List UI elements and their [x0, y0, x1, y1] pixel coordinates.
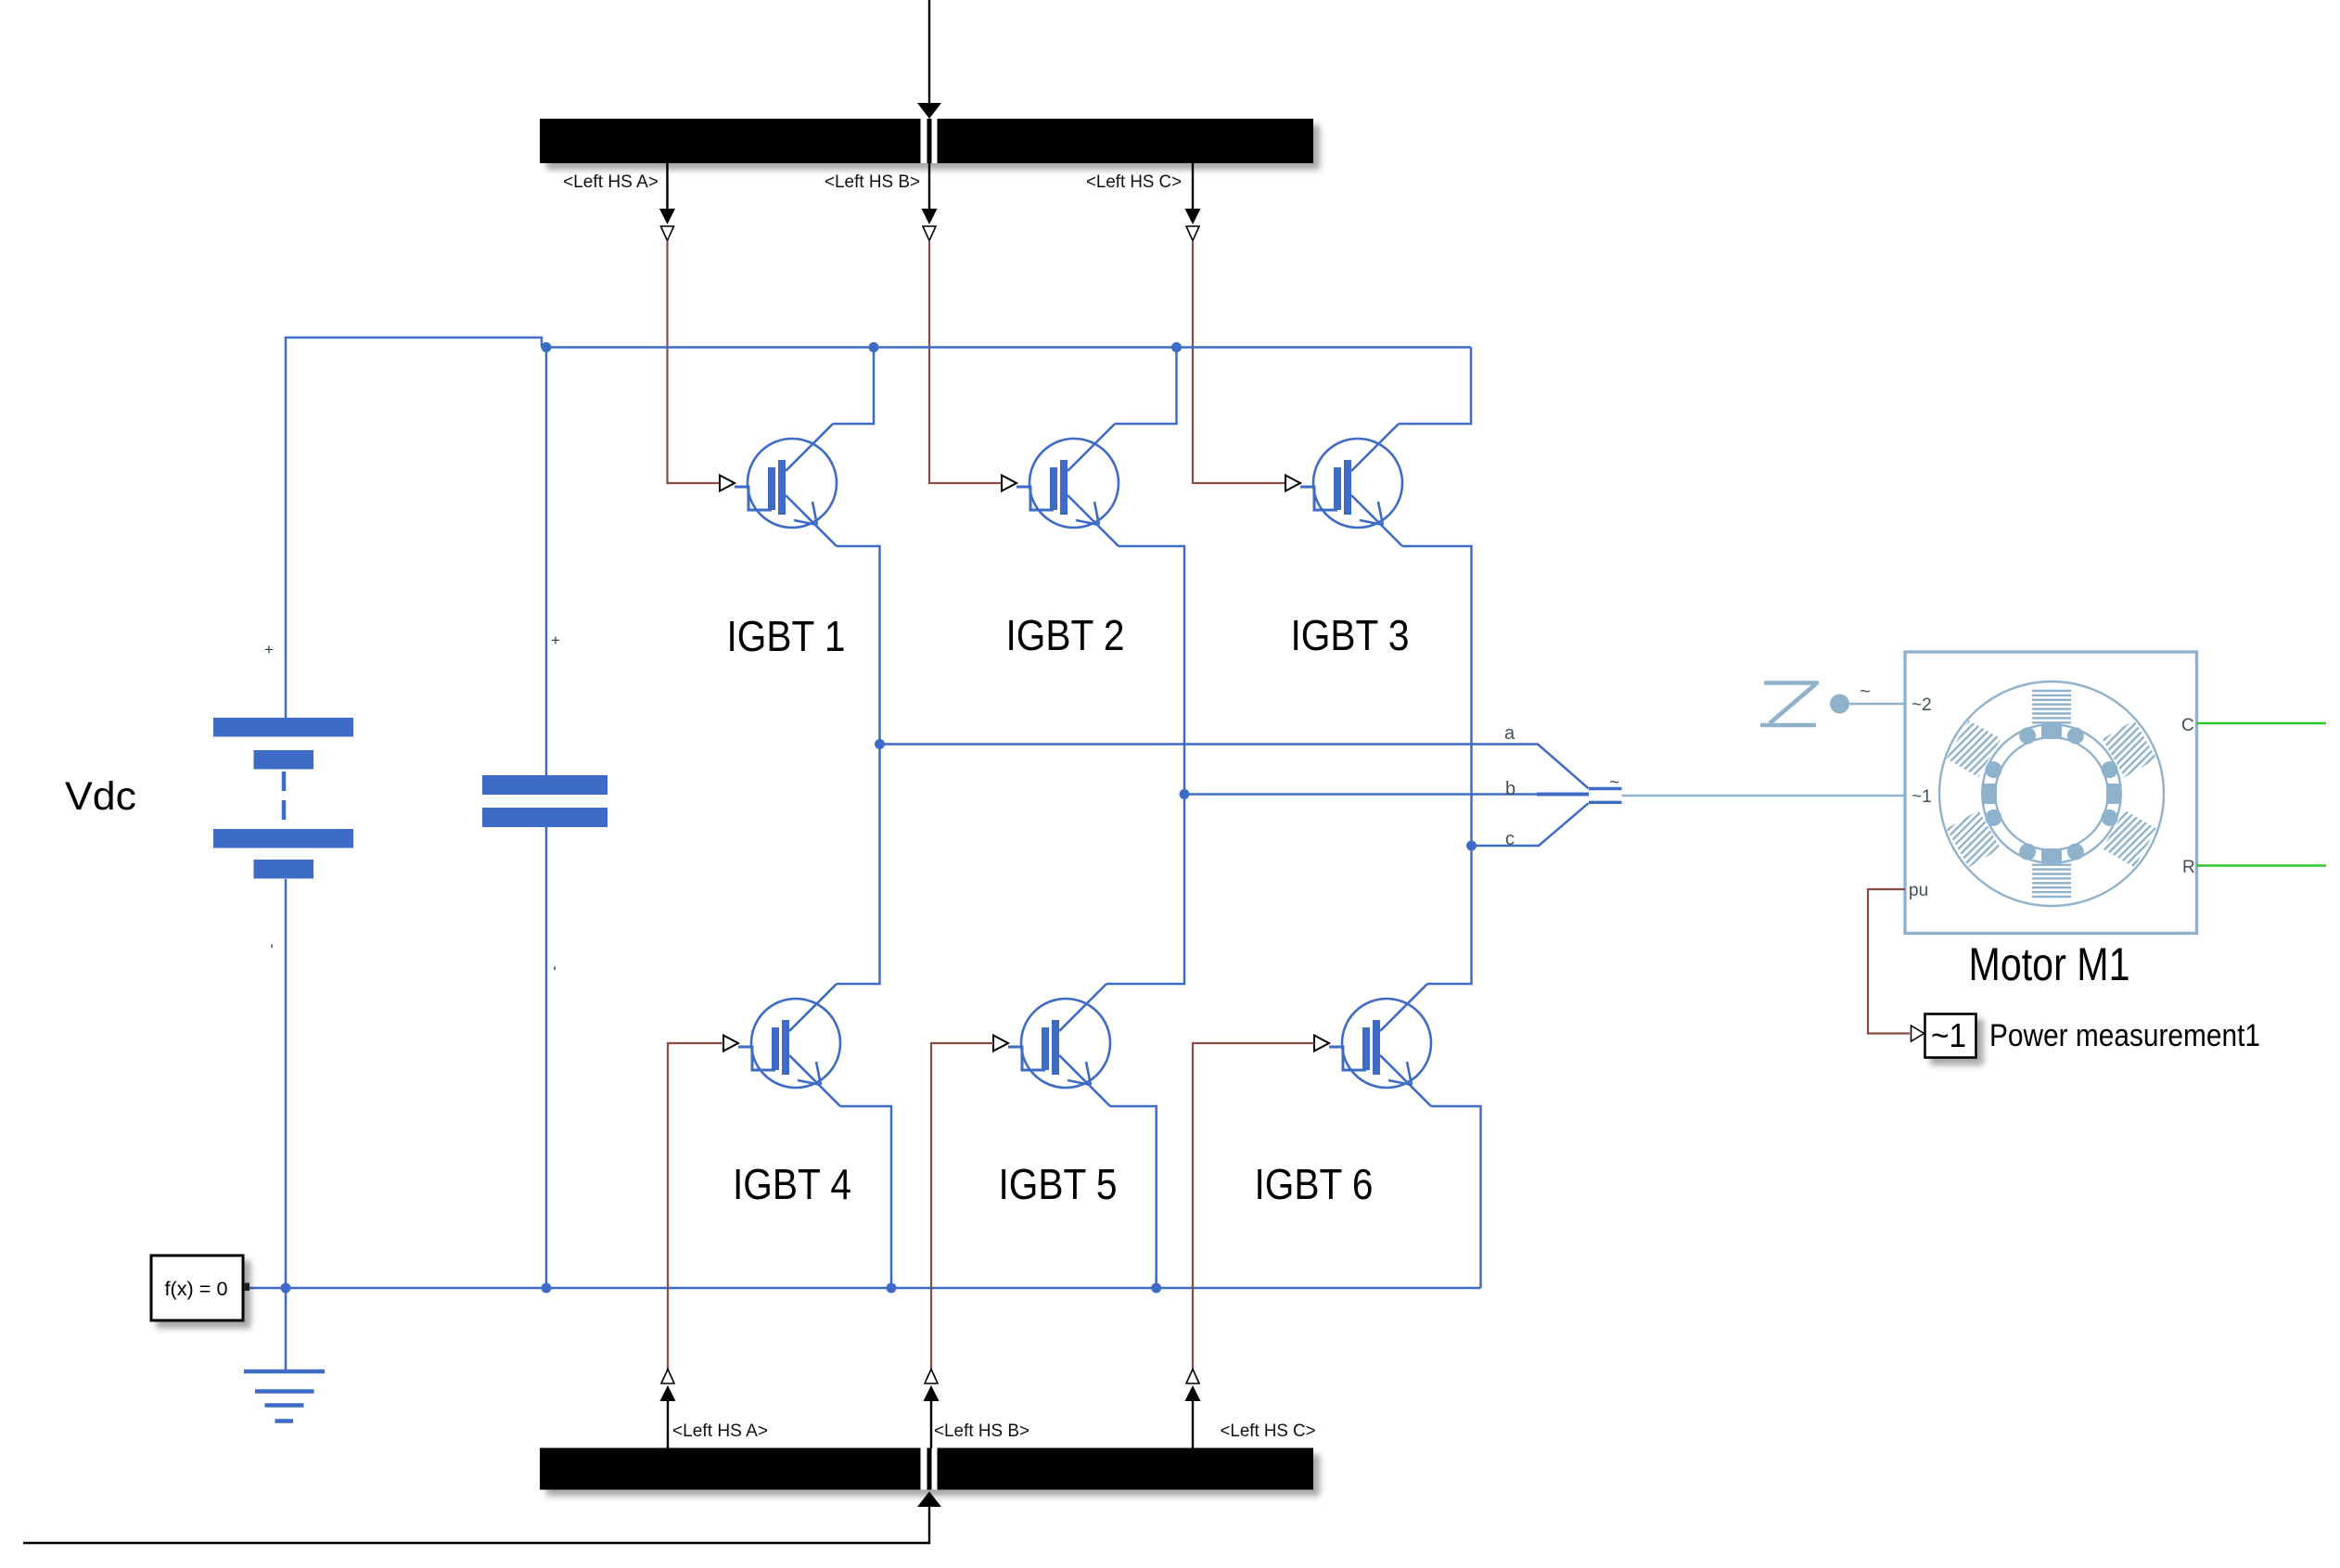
wire pu to power measurement: [1868, 889, 1910, 1034]
svg-text:Motor M1: Motor M1: [1969, 938, 2130, 990]
tap C open arrowhead: [1186, 226, 1199, 241]
svg-text:b: b: [1505, 779, 1515, 799]
svg-text:<Left HS B>: <Left HS B>: [825, 172, 920, 192]
wire IGBT1 emitter to node a: [837, 546, 880, 745]
three-phase merge stem: [1537, 793, 1589, 797]
wire green R output: [2197, 864, 2327, 867]
motor M1 block body: [1905, 652, 2197, 934]
svg-text:': ': [270, 941, 273, 959]
battery Vdc plate 4: [254, 860, 314, 879]
svg-text:<Left HS C>: <Left HS C>: [1086, 172, 1182, 192]
tap A filled arrowhead: [659, 209, 675, 224]
svg-text:C: C: [2181, 716, 2194, 735]
wire IGBT4 collector to node a: [837, 745, 880, 985]
svg-text:<Left HS C>: <Left HS C>: [1221, 1421, 1316, 1441]
battery Vdc dashed link: [282, 771, 287, 827]
tap B filled arrowhead: [922, 209, 938, 224]
transistor IGBT 2: [1002, 424, 1119, 546]
svg-text:a: a: [1504, 723, 1515, 744]
svg-text:IGBT 6: IGBT 6: [1255, 1160, 1374, 1208]
wire gate IGBT3: [1193, 241, 1285, 483]
junction bottom rail / capacitor: [542, 1283, 552, 1294]
motor stator winding hatch SE: [2103, 810, 2157, 868]
wire phase c: [1472, 803, 1589, 846]
svg-text:pu: pu: [1909, 881, 1928, 900]
wire gate IGBT2: [929, 241, 1002, 483]
transistor IGBT 6: [1314, 984, 1431, 1106]
battery Vdc plate 1: [213, 718, 353, 737]
wire IGBT2 emitter to node b: [1119, 546, 1184, 795]
arrowhead input into top bus: [917, 103, 941, 119]
wire battery negative leg: [285, 879, 288, 1371]
motor bearing block top: [2041, 724, 2062, 739]
wire IGBT5 collector to node b: [1106, 795, 1184, 985]
tap B wire: [928, 163, 930, 210]
motor stator winding hatch bottom: [2032, 865, 2071, 897]
svg-text:IGBT 4: IGBT 4: [733, 1160, 851, 1208]
wire green C output: [2197, 722, 2327, 725]
wire input signal top: [928, 0, 930, 104]
tap A wire: [666, 163, 668, 210]
tap B open arrowhead bottom: [925, 1370, 938, 1384]
wire IGBT2 collector to top rail: [1115, 348, 1177, 425]
Z reference symbol: [1764, 681, 1819, 685]
svg-text:<Left HS A>: <Left HS A>: [563, 172, 659, 192]
tap A filled arrowhead bottom: [660, 1385, 676, 1401]
motor bearing ring outer: [1982, 724, 2121, 863]
tap C wire bottom: [1192, 1400, 1194, 1448]
bus crossing stripe left: [921, 119, 927, 163]
svg-text:IGBT 1: IGBT 1: [727, 612, 846, 660]
bus crossing stripe left bottom: [921, 1448, 927, 1490]
port square f(x) block: [244, 1283, 249, 1292]
tap A wire bottom: [667, 1400, 669, 1448]
junction top rail / IGBT1 collector: [869, 342, 879, 352]
wire IGBT3 collector to top rail end: [1399, 348, 1471, 425]
tap A open arrowhead bottom: [661, 1370, 674, 1384]
wire battery positive to top rail: [286, 338, 542, 718]
transistor IGBT 4: [723, 984, 840, 1106]
wire gate IGBT6: [1193, 1043, 1314, 1369]
wire IGBT5 emitter to bottom rail: [1110, 1106, 1157, 1288]
bus crossing stripe right: [932, 119, 938, 163]
motor bearing block right: [2106, 784, 2121, 804]
wire three-phase line to motor: [1622, 795, 1906, 797]
tap C open arrowhead bottom: [1186, 1370, 1199, 1384]
junction bottom rail / battery: [281, 1283, 291, 1294]
tap A open arrowhead: [661, 226, 674, 241]
svg-text:<Left HS B>: <Left HS B>: [934, 1421, 1029, 1441]
block f(x)=0 solver: [151, 1256, 243, 1320]
three-phase merge bar lower: [1589, 801, 1622, 804]
wire capacitor bottom leg: [545, 827, 548, 1288]
svg-text:+: +: [551, 631, 560, 649]
junction bottom rail / IGBT5 emitter: [1151, 1283, 1161, 1294]
mux bus bar bottom: [540, 1448, 1313, 1490]
svg-text:IGBT 3: IGBT 3: [1291, 611, 1410, 659]
tap B filled arrowhead bottom: [924, 1385, 940, 1401]
motor stator outer circle: [1939, 682, 2164, 906]
svg-text:Power measurement1: Power measurement1: [1989, 1018, 2260, 1053]
svg-text:IGBT 2: IGBT 2: [1006, 611, 1125, 659]
battery Vdc plate 2: [254, 750, 314, 770]
junction node a: [875, 739, 885, 749]
transistor IGBT 3: [1285, 424, 1402, 546]
wire IGBT6 collector to node c: [1427, 846, 1472, 984]
wire gate IGBT1: [668, 241, 721, 483]
svg-text:+: +: [264, 641, 274, 658]
tap C wire: [1192, 163, 1194, 210]
bus crossing stripe right bottom: [932, 1448, 938, 1490]
motor rotor inner circle: [1995, 737, 2107, 849]
transistor IGBT 1: [720, 424, 837, 546]
motor stator winding hatch NW: [1947, 720, 2001, 778]
wire IGBT3 emitter to node c: [1402, 546, 1472, 846]
svg-text:R: R: [2182, 858, 2195, 877]
three-phase merge bar upper: [1589, 787, 1622, 790]
wire gate IGBT5: [931, 1043, 993, 1369]
motor stator winding hatch SW: [1947, 810, 2001, 868]
wire phase b: [1184, 793, 1589, 796]
svg-text:c: c: [1505, 829, 1515, 849]
svg-text:Vdc: Vdc: [65, 774, 136, 819]
motor stator winding hatch top: [2032, 691, 2071, 722]
svg-text:<Left HS A>: <Left HS A>: [672, 1421, 768, 1441]
transistor IGBT 5: [993, 984, 1110, 1106]
block ~1 power measurement: [1925, 1014, 1976, 1058]
capacitor plate bottom: [482, 808, 607, 827]
wire bottom DC rail: [248, 1287, 1481, 1290]
svg-text:~1: ~1: [1912, 787, 1932, 807]
wire gate IGBT4: [668, 1043, 723, 1369]
arrowhead output into bottom bus: [917, 1492, 941, 1508]
junction bottom rail / IGBT4 emitter: [887, 1283, 897, 1294]
motor stator winding hatch NE: [2103, 720, 2157, 778]
ground symbol: [244, 1371, 325, 1421]
svg-text:f(x) = 0: f(x) = 0: [165, 1279, 228, 1300]
wire top DC rail: [542, 346, 1471, 349]
demux bus bar top: [540, 119, 1313, 163]
junction node c: [1466, 841, 1477, 851]
node dot neutral: [1830, 695, 1849, 714]
svg-text:~1: ~1: [1931, 1016, 1966, 1054]
arrowhead into power measurement block: [1912, 1026, 1924, 1041]
wire capacitor top leg: [545, 348, 548, 776]
motor bearing block left: [1982, 784, 1997, 804]
svg-text:': ': [553, 963, 556, 981]
junction top rail / IGBT2 collector: [1171, 342, 1182, 352]
motor bearing balls: [2102, 761, 2118, 778]
tap B open arrowhead: [923, 226, 936, 241]
wire neutral to motor ~2: [1849, 703, 1905, 706]
wire phase a: [880, 745, 1589, 789]
svg-text:~2: ~2: [1912, 695, 1932, 715]
tap B wire bottom: [930, 1400, 932, 1448]
svg-text:IGBT 5: IGBT 5: [999, 1160, 1118, 1208]
junction top rail / capacitor: [542, 342, 552, 352]
capacitor plate top: [482, 775, 607, 795]
wire output bottom bus: [23, 1506, 929, 1543]
tap C filled arrowhead: [1185, 209, 1201, 224]
wire IGBT4 emitter to bottom rail: [840, 1106, 891, 1288]
wire IGBT6 emitter to bottom rail end: [1431, 1106, 1481, 1288]
svg-text:~: ~: [1860, 682, 1871, 702]
tap C filled arrowhead bottom: [1185, 1385, 1201, 1401]
junction node b: [1180, 789, 1190, 799]
battery Vdc plate 3: [213, 829, 353, 848]
svg-text:~: ~: [1609, 773, 1619, 793]
motor bearing block bottom: [2041, 848, 2062, 863]
wire IGBT1 collector to top rail: [833, 348, 874, 425]
